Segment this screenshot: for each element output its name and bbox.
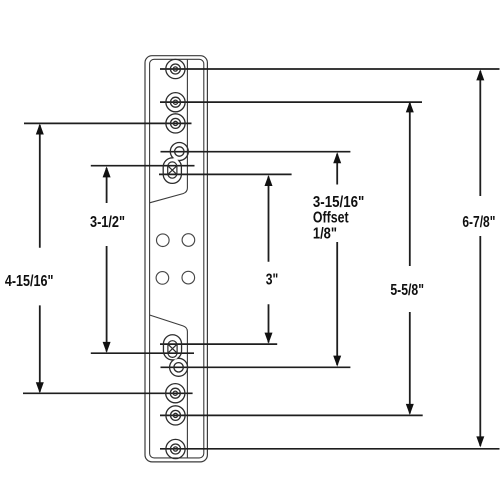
dimension 4-15/16 arrows (36, 124, 44, 394)
extension line hole H2 to 5-5/8 top (160, 101, 422, 103)
bracket face divider bottom segment (150, 315, 188, 458)
extension line hole H1 to 6-7/8 top (160, 68, 500, 70)
top slot X mark (168, 166, 176, 174)
bracket inner outline (150, 59, 204, 458)
hole H3 (166, 114, 185, 133)
hole H2 (166, 93, 185, 112)
svg-text:5-5/8": 5-5/8" (390, 282, 424, 299)
dimension 3-15/16 offset arrows (333, 152, 341, 366)
mounting circle upper-right (182, 234, 195, 247)
hole HC (166, 439, 185, 458)
bottom keyhole circle inner (174, 363, 183, 372)
dimension 5-5/8 arrows (406, 101, 414, 415)
extension line bottom keyhole circle to offset bottom (161, 366, 351, 368)
top keyhole circle outer (170, 143, 188, 161)
svg-text:1/8": 1/8" (313, 225, 337, 242)
bottom slot X mark (169, 345, 177, 353)
mounting circle lower-right (182, 271, 195, 284)
svg-text:3": 3" (266, 272, 279, 289)
svg-text:Offset: Offset (313, 210, 349, 227)
dimension 3-1/2 arrows (103, 166, 111, 353)
svg-text:3-1/2": 3-1/2" (90, 214, 125, 231)
hole HA (166, 384, 185, 403)
mounting circle lower-left (156, 272, 169, 285)
dimension 6-7/8 line segments (479, 71, 481, 446)
dimension 6-7/8 arrows (476, 69, 484, 447)
extension line top keyhole circle to offset top (161, 151, 351, 153)
extension line hole HB to 5-5/8 bottom (160, 414, 423, 416)
bottom keyhole slot outline (obround part) (163, 335, 181, 360)
svg-text:4-15/16": 4-15/16" (5, 273, 54, 290)
dimension 4-15/16 line segments (39, 125, 41, 392)
top slot inner outline (168, 162, 177, 178)
dimension 3 inch arrows (265, 175, 273, 344)
dimension 3-1/2 line segments (106, 168, 108, 352)
bracket face divider top segment (150, 59, 188, 203)
extension line bottom slot upper to 3 inch bottom (160, 343, 277, 345)
mounting circle upper-left (157, 234, 170, 247)
bottom keyhole circle outer (170, 358, 188, 376)
svg-text:6-7/8": 6-7/8" (462, 214, 495, 231)
extension line bottom slot lower to 3-1/2 bottom (91, 352, 194, 354)
extension line top slot upper to 3-1/2 top (91, 165, 195, 167)
hole H1 (166, 59, 185, 78)
bottom slot inner outline (168, 341, 177, 358)
dimension 5-5/8 line segments (409, 103, 411, 414)
top keyhole circle inner (175, 147, 184, 156)
extension line hole HA to 4-15/16 bottom (23, 392, 193, 394)
svg-text:3-15/16": 3-15/16" (313, 194, 364, 211)
hole HB (166, 406, 185, 425)
extension line top slot lower to 3 inch top (159, 173, 292, 175)
bracket outer outline (145, 56, 207, 462)
dimension 3 inch line segments (268, 177, 270, 343)
top keyhole slot outline (obround part) (163, 158, 181, 184)
extension line hole HC to 6-7/8 bottom (160, 448, 500, 450)
dimension 3-15/16 offset line segments (336, 154, 338, 365)
extension line hole H3 to 4-15/16 top (24, 122, 192, 124)
